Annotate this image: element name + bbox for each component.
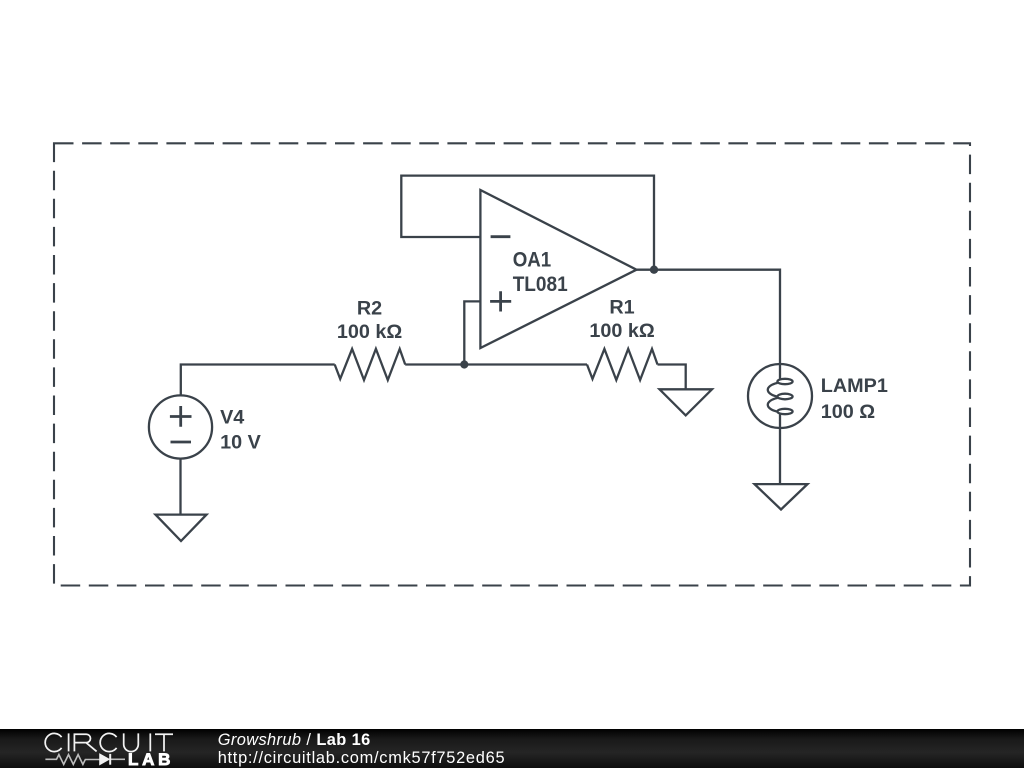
CircuitLab logo resistor-diode squiggle [45,754,125,765]
ground (R1) [660,389,713,415]
schematic dashed border frame [54,143,970,585]
V4 plus sign [170,406,192,427]
svg-text:100 Ω: 100 Ω [821,401,876,423]
wire R2 to R1 through node [405,363,587,365]
svg-text:10 V: 10 V [220,431,261,453]
lamp filament coil [777,379,792,384]
svg-text:TL081: TL081 [513,271,568,296]
voltage source V4 circle [149,395,212,458]
footer bar [0,729,1024,768]
wire V4 to ground [179,459,181,515]
wire lamp to ground [779,413,781,484]
svg-text:100 kΩ: 100 kΩ [337,321,403,343]
lamp LAMP1 circle [748,364,812,428]
svg-text:R1: R1 [609,297,634,319]
V4 minus sign [171,441,192,444]
svg-text:OA1: OA1 [513,247,552,272]
resistor R2 [335,349,406,380]
op-amp U1 triangle [480,190,636,348]
feedback wire from - input to output [401,176,654,270]
op-amp minus input sign [491,235,511,238]
CircuitLab logo wordmark CIRCUIT (hand-drawn thin letters) [45,733,173,751]
output node junction dot [650,266,658,274]
wire R1 to ground [658,365,686,390]
resistor R1 [587,349,658,380]
op-amp plus input sign [490,291,511,311]
svg-text:100 kΩ: 100 kΩ [589,320,655,342]
node A junction dot [460,360,468,368]
svg-text:LAMP1: LAMP1 [821,375,888,397]
ground (LAMP1) [755,484,808,509]
svg-text:R2: R2 [357,297,382,319]
wire V4 top to R2 [181,365,335,397]
wire node to op-amp + input [464,301,480,364]
svg-text:V4: V4 [220,406,244,428]
wire op-amp output to lamp [637,270,781,380]
ground (V4) [156,515,207,541]
